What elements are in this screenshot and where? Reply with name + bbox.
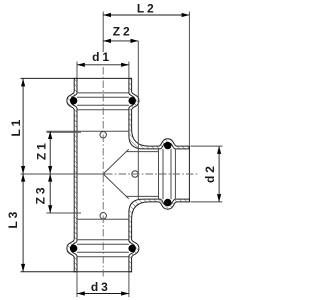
dimension Z3 [49,174,51,213]
branch mouth edge line [188,146,190,202]
bore intersection cone lower diagonal [103,174,129,199]
leak-path indicator circle bottom socket [100,213,106,219]
L2 left extension [102,12,104,53]
dimension d1 [77,64,129,66]
svg-text:d 3: d 3 [91,280,108,294]
dimension extension lines [77,12,222,298]
dimension L3 [22,174,24,272]
d2 bottom extension [191,201,223,203]
press-fit tee fitting technical drawing [6,2,222,297]
bottom socket mouth edge line (extends left for L3 extension) [21,271,132,273]
svg-text:L 1: L 1 [9,119,23,136]
branch horizontal centerline (dash-dot) [105,173,200,175]
d3 right extension [128,272,130,297]
O-ring dot branch bottom [164,199,172,207]
leak-path indicator circle top socket [100,132,106,138]
dimension d3 [77,293,129,295]
bottom socket pipe stop line [77,218,129,220]
O-ring dot bottom socket right [128,245,136,253]
Z1 extension tick [46,131,81,133]
right-top wall section band with junction fillet and branch top wall (hatched) [129,78,190,148]
d1 right extension [128,62,130,79]
dimension Z2 [103,40,138,42]
left wall section band of tee body (hatched) [67,78,77,271]
O-ring dot bottom socket left [70,245,78,253]
svg-text:d 2: d 2 [203,166,217,183]
bottom socket bead bore lines [77,240,129,257]
svg-text:L 3: L 3 [6,211,20,228]
top socket pipe stop line [46,130,128,132]
dimension L2 [103,14,189,16]
svg-text:Z 2: Z 2 [113,24,130,38]
L2 right extension (down to branch mouth corner) [188,12,190,147]
svg-text:L 2: L 2 [137,2,154,16]
dimension d2 [218,146,220,202]
vertical centerline of tee body (dash-dot) [102,67,104,277]
O-ring dot top socket right [128,97,136,105]
Z3 extension tick [46,212,81,214]
d1 left extension [76,62,78,79]
dimension lines with arrowheads [21,13,221,296]
d3 left extension [76,272,78,297]
dimension L1 [22,79,24,174]
branch bore silhouette top line [126,151,159,153]
d2 top extension [191,145,223,147]
svg-text:d 1: d 1 [92,50,109,64]
O-ring dot top socket left [70,97,78,105]
leak-path indicator circle branch [132,171,138,177]
svg-text:Z 1: Z 1 [34,143,48,160]
O-ring dot branch top [164,142,172,150]
branch bore silhouette bottom line [126,195,159,197]
top socket bead bore lines [77,93,129,110]
right-bottom wall section band with junction fillet and branch bottom wall (hatched) [129,199,190,272]
branch bead bore lines [159,149,176,199]
bore intersection cone upper diagonal [103,149,129,174]
branch pipe stop line + Z2 extension [137,41,139,199]
branch axis extension line to left dimensions [21,173,106,175]
svg-text:Z 3: Z 3 [33,187,47,204]
dimension Z1 [49,131,51,174]
top socket mouth edge line (extends left for L1 extension) [21,77,132,79]
